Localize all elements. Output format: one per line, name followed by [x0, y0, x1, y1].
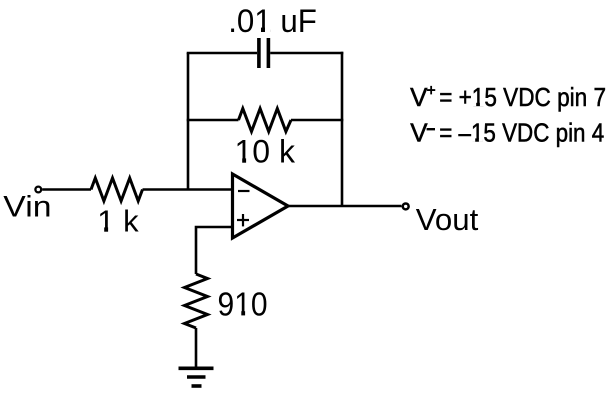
wire R2 to right vertical	[291, 119, 343, 122]
svg-text:.01 uF: .01 uF	[228, 3, 317, 39]
label V+ supply pin 7	[410, 82, 606, 112]
svg-text:+: +	[427, 82, 436, 99]
terminal Vin	[35, 187, 41, 193]
resistor R1 1 k	[91, 178, 143, 201]
wire R1 to inverting input, node A	[143, 188, 234, 191]
svg-text:1 k: 1 k	[97, 204, 139, 239]
label Vout	[416, 202, 479, 237]
capacitor C1 .01 uF	[259, 38, 269, 68]
svg-text:= –15 VDC pin 4: = –15 VDC pin 4	[439, 118, 604, 148]
svg-text:Vin: Vin	[3, 191, 51, 224]
wire op-amp output to Vout, node B	[288, 205, 402, 208]
wire Vin to R1	[42, 188, 91, 191]
resistor R2 10 k	[239, 109, 292, 132]
label .01 uF	[228, 3, 317, 39]
label V- supply pin 4	[410, 118, 604, 148]
op-amp inverting input sign	[238, 190, 250, 192]
label 910	[218, 286, 268, 323]
wire right feedback vertical	[341, 52, 344, 206]
label Vin	[3, 191, 51, 224]
wire non-inverting input	[196, 227, 233, 274]
svg-text:10 k: 10 k	[235, 134, 296, 170]
ground	[179, 368, 214, 386]
wire left feedback vertical	[187, 53, 190, 191]
wire R3 to ground	[195, 328, 198, 368]
svg-text:V: V	[410, 82, 428, 112]
wire node A to R2	[187, 119, 239, 122]
op-amp U1	[233, 174, 289, 238]
wire top feedback left segment	[187, 52, 257, 55]
op-amp non-inverting input sign	[237, 214, 249, 226]
wire top feedback right segment	[270, 52, 343, 55]
svg-text:Vout: Vout	[416, 202, 479, 237]
label 1 k	[97, 204, 139, 239]
svg-text:= +15 VDC pin 7: = +15 VDC pin 7	[439, 82, 606, 112]
terminal Vout	[403, 203, 409, 209]
label 10 k	[235, 134, 296, 170]
svg-text:V: V	[410, 118, 428, 148]
svg-text:910: 910	[218, 286, 268, 323]
resistor R3 910	[185, 274, 208, 328]
